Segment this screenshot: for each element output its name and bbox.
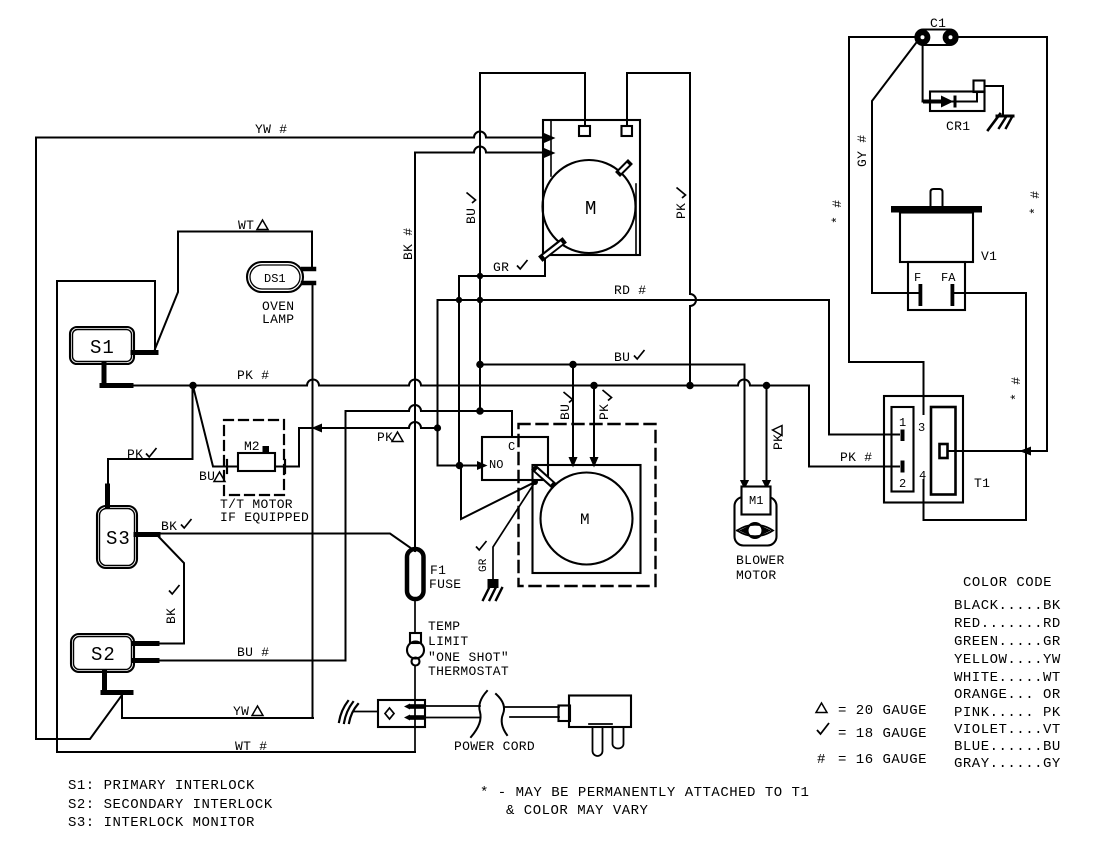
wire YW# top horizontal with hop over x=480 — [36, 137, 545, 139]
svg-text:BLACK.....BK: BLACK.....BK — [954, 598, 1061, 614]
motor M2 subscript mark — [263, 446, 270, 454]
wire inner loop: S1 right terminal up and across — [57, 281, 155, 752]
svg-text:T1: T1 — [974, 476, 990, 491]
transformer T1 secondary terminal — [940, 444, 948, 458]
power cord lines — [426, 706, 480, 718]
wire BU horizontal — [480, 364, 745, 366]
node small dots on RD wire crossings — [457, 298, 461, 302]
node junction dot at (438,428) — [435, 425, 440, 430]
wire BU# from S2 to x=345 vertical — [156, 660, 345, 662]
wire WT-triangle horizontal — [178, 231, 312, 233]
wire CR1 tab to ground — [985, 86, 1004, 114]
svg-text:PK #: PK # — [840, 450, 872, 465]
svg-text:POWER CORD: POWER CORD — [454, 739, 535, 754]
switch blade — [536, 470, 552, 485]
wire stirrer motor BU lead — [572, 365, 574, 463]
diode CR1 symbol — [925, 100, 941, 104]
svg-text:S2: SECONDARY INTERLOCK: S2: SECONDARY INTERLOCK — [68, 797, 273, 813]
ground chassis at CR1 — [988, 114, 1000, 130]
wire RD# horizontal — [438, 299, 829, 301]
svg-text:BK: BK — [161, 519, 177, 534]
svg-text:PK: PK — [377, 430, 393, 445]
transformer T1 pin bars — [901, 430, 905, 442]
svg-text:FA: FA — [941, 271, 956, 285]
fan motor terminal squares — [579, 126, 590, 136]
magnetron V1 top plate — [891, 206, 982, 213]
node arrowhead into x=313 vertical — [314, 425, 321, 431]
node blade pivot dot — [532, 479, 538, 485]
motor M2 winding — [238, 453, 275, 471]
switch S2 bottom stub — [102, 672, 107, 690]
wire T1 secondary output — [948, 450, 1048, 452]
wire RD# right drop to T1 pin1 — [829, 300, 899, 435]
legend gauge — [816, 703, 827, 713]
svg-text:PK: PK — [597, 404, 612, 420]
wire S2 bottom to YW-triangle — [122, 695, 313, 718]
label check near S2 diagonal — [169, 585, 180, 594]
wire PK-triangle vertical BU wire drop to blower — [744, 365, 746, 485]
node dot M1 right lead — [764, 383, 770, 389]
fan motor circle — [543, 160, 636, 253]
fan motor GR stub — [543, 242, 562, 257]
svg-text:= 18 GAUGE: = 18 GAUGE — [838, 726, 927, 742]
svg-text:#: # — [817, 752, 826, 768]
svg-text:BU: BU — [199, 469, 215, 484]
svg-text:BK #: BK # — [401, 228, 416, 260]
motor M2 T/T dashed box — [224, 420, 284, 495]
stirrer motor circle — [541, 473, 633, 565]
svg-text:BLOWER: BLOWER — [736, 553, 785, 568]
svg-text:C1: C1 — [930, 16, 946, 31]
fan motor shaft nub — [620, 164, 628, 172]
node junction dot PK#/S1 — [190, 383, 196, 389]
svg-text:S1: PRIMARY INTERLOCK: S1: PRIMARY INTERLOCK — [68, 778, 255, 794]
blower M1 body — [735, 497, 777, 546]
wire bottom jog to S2 diagonal — [36, 695, 122, 739]
wire blade to chassis ground — [493, 482, 535, 580]
switch S2 top right stub — [134, 641, 158, 646]
node dot BU start — [477, 362, 483, 368]
svg-text:M1: M1 — [749, 494, 763, 508]
svg-text:BU: BU — [614, 350, 630, 365]
svg-text:GR: GR — [493, 260, 509, 275]
node dot at (480,411) — [477, 408, 483, 414]
svg-text:PK: PK — [127, 447, 143, 462]
svg-text:VIOLET....VT: VIOLET....VT — [954, 722, 1061, 738]
wire fuse to thermostat — [414, 599, 416, 633]
svg-text:TEMP: TEMP — [428, 619, 460, 634]
switch S2 bottom right stub — [134, 658, 158, 663]
wire BK# arrowhead into fan motor — [545, 150, 553, 157]
thermostat bottom circle — [412, 658, 420, 666]
wire DS1 bottom lead long vertical to YW-triangle wire — [312, 286, 314, 718]
svg-text:PK: PK — [674, 203, 689, 219]
svg-text:LIMIT: LIMIT — [428, 634, 469, 649]
wire BK-check from S3 to fuse diagonal — [157, 534, 415, 552]
plug body — [569, 696, 631, 728]
wire stirrer motor PK lead — [593, 386, 595, 463]
wire WT# bottom horizontal — [57, 751, 415, 753]
svg-text:LAMP: LAMP — [262, 312, 294, 327]
transformer T1 primary box — [892, 407, 914, 492]
node dot on NO wire — [457, 463, 463, 469]
switch S1 bottom stub — [102, 364, 107, 383]
plug collar — [559, 706, 571, 722]
wire T1 pin3 entry — [923, 362, 925, 414]
svg-text:V1: V1 — [981, 249, 997, 264]
svg-text:F: F — [914, 271, 921, 285]
node dot PK lead — [591, 383, 597, 389]
plug prong right — [613, 727, 624, 749]
svg-text:GR: GR — [478, 558, 490, 572]
svg-text:RED.......RD: RED.......RD — [954, 616, 1061, 632]
svg-text:M2: M2 — [244, 439, 260, 454]
svg-text:IF EQUIPPED: IF EQUIPPED — [220, 510, 309, 525]
wire connector ground lead — [354, 711, 378, 713]
node arrowheads into blower M1 — [742, 481, 748, 487]
svg-text:BU: BU — [558, 404, 573, 420]
wire fan motor right lead x=690 — [689, 73, 691, 386]
svg-text:COLOR CODE: COLOR CODE — [963, 575, 1052, 591]
wire BK# horizontal with hop over x=480 — [415, 152, 545, 154]
cord break squiggle left — [471, 691, 487, 737]
wire C1 left cap down to CR1 — [922, 45, 924, 102]
svg-text:DS1: DS1 — [264, 272, 286, 286]
svg-text:4: 4 — [919, 469, 926, 483]
wire CR1 internal — [923, 92, 977, 102]
wire fan motor top loop left — [480, 73, 585, 126]
lamp DS1 oval — [247, 262, 303, 292]
svg-text:BLUE......BU: BLUE......BU — [954, 739, 1061, 755]
wire blower M1 right lead — [766, 386, 768, 485]
svg-text:ORANGE... OR: ORANGE... OR — [954, 687, 1061, 703]
wire outer left vertical YW — [35, 138, 37, 740]
wire FA terminal to right vertical — [954, 293, 1026, 520]
svg-text:YELLOW....YW: YELLOW....YW — [954, 652, 1061, 668]
wire C1 right top to outer right vertical — [957, 36, 1047, 38]
wire C1 diagonal to GY vertical — [872, 43, 916, 293]
wire switch blade loop — [461, 466, 535, 520]
lamp DS1 terminal stubs — [303, 267, 314, 272]
svg-text:3: 3 — [918, 421, 925, 435]
wire BK# vertical to fuse — [414, 153, 416, 552]
cord break squiggle right — [496, 694, 507, 735]
svg-text:WT #: WT # — [235, 739, 267, 754]
wire diagonal from PK# junction to M2 circuit — [193, 386, 238, 467]
node arrowheads into stirrer motor box — [570, 458, 576, 465]
wire C lead drop into switch box — [511, 411, 513, 437]
blower M1 box — [742, 487, 771, 515]
node arrowhead into NO terminal — [478, 463, 485, 469]
svg-text:M: M — [585, 198, 596, 220]
magnetron V1 terminal bars — [919, 284, 923, 306]
wire S3 to S2 link diagonal and vertical — [156, 535, 184, 644]
switch S3 right stub — [136, 532, 158, 537]
wire y=428 from M2 to RD vertical — [299, 427, 438, 429]
wire GR from fan motor stub — [459, 258, 545, 466]
thermostat switch box C/NO — [482, 437, 548, 480]
switch S1 right stub — [133, 350, 156, 355]
power cord connector box — [378, 700, 425, 727]
wire outer right vertical down to T1 secondary — [1046, 37, 1048, 451]
thermostat TEMP LIMIT square — [410, 633, 421, 643]
capacitor C1 — [916, 30, 958, 46]
magnetron V1 body — [900, 213, 973, 263]
wire C1 left vertical to T1 pin3 link — [849, 37, 924, 362]
switch S3 box — [97, 506, 137, 568]
svg-text:* #: * # — [830, 200, 845, 224]
fan motor box — [543, 120, 640, 255]
svg-text:S3: INTERLOCK MONITOR: S3: INTERLOCK MONITOR — [68, 815, 255, 831]
svg-text:2: 2 — [899, 477, 906, 491]
wire x=345 vertical from y=411 wire to BU# — [345, 411, 347, 661]
wire fan motor top loop right — [627, 73, 690, 126]
svg-text:& COLOR MAY VARY: & COLOR MAY VARY — [506, 803, 649, 819]
thermostat circle — [407, 642, 424, 659]
svg-text:= 20 GAUGE: = 20 GAUGE — [838, 703, 927, 719]
svg-text:1: 1 — [899, 416, 906, 430]
wire NO horizontal into switch — [438, 465, 481, 467]
svg-text:CR1: CR1 — [946, 119, 970, 134]
svg-text:BU #: BU # — [237, 645, 269, 660]
svg-text:FUSE: FUSE — [429, 577, 461, 592]
svg-text:RD #: RD # — [614, 283, 646, 298]
svg-text:* #: * # — [1028, 191, 1043, 215]
svg-text:WHITE.....WT: WHITE.....WT — [954, 670, 1061, 686]
svg-text:PK #: PK # — [237, 368, 269, 383]
svg-text:YW: YW — [233, 704, 249, 719]
svg-text:GY #: GY # — [855, 135, 870, 167]
svg-text:BU: BU — [464, 208, 479, 224]
svg-text:MOTOR: MOTOR — [736, 568, 777, 583]
transformer T1 outer box — [884, 396, 963, 503]
connector diamond — [385, 708, 394, 719]
wire DS1 top lead from WT wire — [311, 232, 313, 267]
svg-text:"ONE SHOT": "ONE SHOT" — [428, 650, 509, 665]
wire T1 pin4 exit — [924, 480, 1027, 520]
label check at stirrer ground — [476, 541, 487, 550]
svg-text:F1: F1 — [430, 563, 446, 578]
svg-text:PINK..... PK: PINK..... PK — [954, 705, 1061, 721]
svg-text:YW #: YW # — [255, 122, 287, 137]
diode CR1 package — [930, 92, 985, 112]
svg-text:NO: NO — [489, 458, 503, 472]
svg-text:* #: * # — [1009, 377, 1024, 401]
svg-text:C: C — [508, 440, 515, 454]
plug prong left — [593, 727, 603, 756]
svg-text:* - MAY BE PERMANENTLY ATTACHE: * - MAY BE PERMANENTLY ATTACHED TO T1 — [480, 785, 809, 801]
svg-text:GRAY......GY: GRAY......GY — [954, 756, 1061, 772]
motor M2 lead ticks — [226, 460, 228, 473]
svg-text:PK: PK — [771, 434, 786, 450]
wire F terminal horizontal — [872, 292, 918, 294]
fuse F1 — [407, 549, 424, 599]
wire thermostat down through connector — [414, 666, 416, 752]
wire PK# main horizontal with hops at 313 and 415 — [131, 385, 809, 387]
stirrer motor box — [533, 465, 641, 573]
magnetron V1 filament box — [908, 262, 965, 310]
wire S3 top lead — [107, 459, 109, 489]
magnetron V1 antenna — [931, 189, 943, 206]
node small dot GR/x480 crossing — [478, 274, 482, 278]
node dot fan right lead at PK# — [687, 383, 693, 389]
svg-text:BK: BK — [164, 608, 179, 624]
wire PK# right end drop to T1 pin2 — [809, 386, 899, 467]
transformer T1 secondary box — [931, 407, 956, 495]
wire junction drop to PK-check wire — [108, 386, 193, 460]
wire M2 right lead up to y=428 wire — [275, 428, 299, 467]
svg-text:M: M — [580, 511, 590, 529]
blower eye lens — [737, 525, 773, 537]
wire y=411 horizontal to thermostat C — [346, 410, 513, 412]
stirrer motor dashed box — [519, 424, 656, 586]
plug face line — [589, 723, 612, 725]
svg-text:= 16 GAUGE: = 16 GAUGE — [838, 752, 927, 768]
svg-text:S2: S2 — [91, 644, 116, 666]
switch S3 top stub — [105, 486, 110, 506]
switch S1 box — [70, 327, 134, 364]
svg-text:GREEN.....GR: GREEN.....GR — [954, 634, 1061, 650]
ground chassis at stirrer — [488, 579, 499, 588]
switch S2 box — [71, 634, 134, 672]
wire YW# arrowhead into fan motor — [545, 135, 553, 142]
wire x=480 vertical from top loop to y=411 — [479, 73, 481, 411]
svg-text:S1: S1 — [90, 337, 115, 359]
wire WT-triangle drop and diagonal to S1 — [155, 232, 178, 350]
svg-text:WT: WT — [238, 218, 254, 233]
wire C1 left top — [849, 36, 916, 38]
svg-text:THERMOSTAT: THERMOSTAT — [428, 664, 509, 679]
node arrowhead on secondary wire — [1022, 448, 1030, 454]
wire RD# drop on left to NO wire — [437, 300, 439, 466]
connector cord terminals — [404, 704, 410, 710]
ground strain slashes at connector — [339, 701, 358, 723]
node dot BU / stirrer lead — [570, 362, 576, 368]
svg-text:S3: S3 — [106, 528, 131, 550]
